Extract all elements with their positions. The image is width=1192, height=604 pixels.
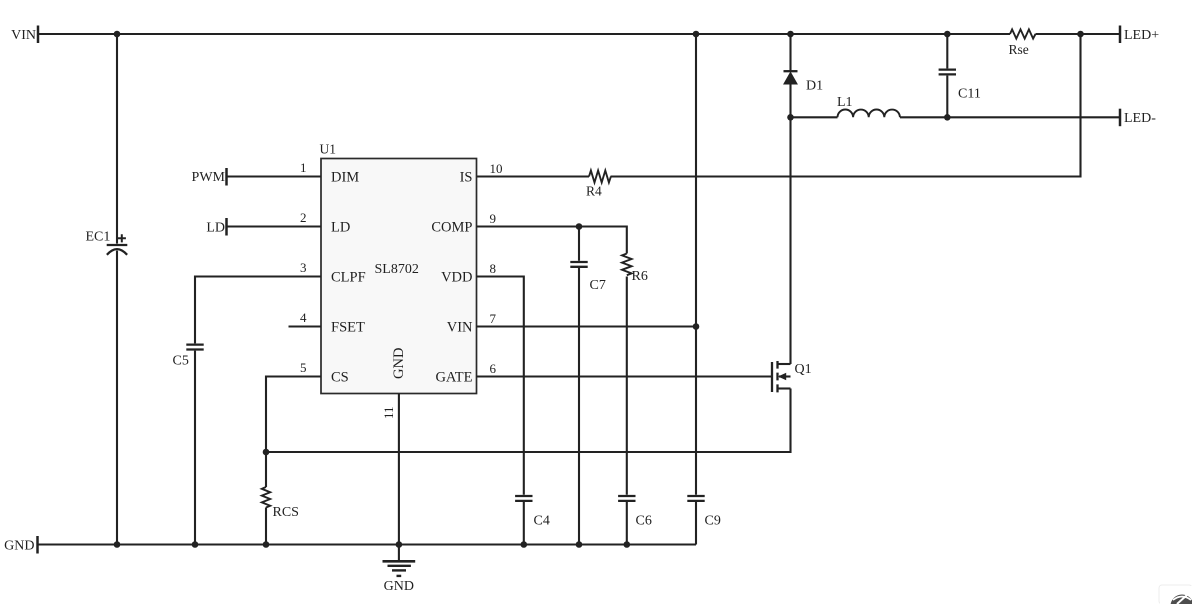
svg-text:LD: LD (206, 221, 225, 236)
node junction D1 L1 (787, 114, 794, 121)
capacitor C4 (515, 496, 550, 529)
capacitor C7 (570, 262, 606, 293)
resistor R4 (586, 171, 611, 199)
wire top rail Rse to LED+ (1036, 33, 1121, 35)
node junction rail EC1 (114, 541, 121, 548)
svg-text:IS: IS (460, 170, 473, 186)
inductor L1 (837, 95, 900, 117)
svg-text:1: 1 (300, 160, 307, 175)
svg-text:FSET: FSET (331, 320, 365, 336)
node junction rail RCS (263, 541, 270, 548)
wire bottom ground rail (38, 543, 697, 545)
diode D1 (784, 71, 824, 93)
terminal LD (206, 218, 226, 236)
svg-text:EC1: EC1 (86, 230, 111, 245)
node junction top rail at EC1 (114, 31, 121, 38)
svg-text:C11: C11 (958, 87, 981, 102)
svg-text:Rse: Rse (1009, 42, 1029, 57)
svg-text:C6: C6 (636, 514, 652, 529)
wire C5 lower lead (194, 351, 196, 545)
svg-text:C7: C7 (590, 278, 606, 293)
capacitor C5 (173, 345, 204, 369)
svg-text:LED-: LED- (1124, 111, 1156, 126)
svg-text:R6: R6 (632, 269, 648, 284)
svg-text:U1: U1 (320, 142, 337, 157)
resistor RCS (262, 487, 299, 520)
capacitor C6 (618, 496, 652, 529)
node junction COMP C7 (576, 223, 583, 230)
wire LD to pin2 (227, 225, 322, 227)
svg-text:COMP: COMP (431, 220, 472, 236)
node junction rail C7 (576, 541, 583, 548)
svg-text:2: 2 (300, 210, 307, 225)
wire R6 to C6 (626, 277, 628, 495)
wire D1 cathode down to Q1 drain (789, 84, 791, 364)
svg-text:GND: GND (391, 348, 407, 379)
wire L1 left lead (791, 116, 838, 118)
terminal VIN (11, 26, 38, 44)
wire COMP to R6 (477, 227, 627, 254)
terminal GND left (4, 536, 37, 554)
svg-text:VIN: VIN (11, 28, 36, 43)
wire EC1 lower lead (116, 251, 118, 545)
node junction top rail at IS sense (1077, 31, 1084, 38)
wire CS to RCS branch (266, 377, 321, 488)
node junction top rail at D1 (787, 31, 794, 38)
wire IS vertical sense line (611, 34, 1081, 177)
svg-text:11: 11 (381, 406, 396, 419)
wire CLPF to C5 (195, 277, 321, 344)
node junction top rail at C11 (944, 31, 951, 38)
node junction CS source link (263, 449, 270, 456)
svg-text:10: 10 (490, 161, 503, 176)
resistor Rse (1009, 29, 1036, 57)
svg-text:RCS: RCS (273, 505, 299, 520)
svg-text:GATE: GATE (435, 370, 472, 386)
IC U1 body (320, 142, 477, 394)
wire VIN pin7 to branch (477, 325, 697, 327)
capacitor C9 (687, 496, 721, 529)
wire CS to Q1 source (266, 389, 791, 453)
wire C7 lower lead (578, 268, 580, 545)
ground symbol (383, 545, 416, 595)
svg-text:6: 6 (490, 361, 497, 376)
svg-text:DIM: DIM (331, 170, 359, 186)
node junction C11 bottom (944, 114, 951, 121)
wire C7 upper lead (578, 227, 580, 261)
wire IS pin to R4 (477, 175, 590, 177)
wire EC1 upper lead (116, 34, 118, 244)
node junction rail GND pin (396, 541, 403, 548)
svg-text:9: 9 (490, 211, 497, 226)
svg-text:GND: GND (384, 579, 414, 594)
svg-text:C4: C4 (534, 514, 550, 529)
svg-text:CS: CS (331, 370, 349, 386)
svg-text:C5: C5 (173, 354, 189, 369)
svg-text:4: 4 (300, 310, 307, 325)
node junction top rail at VIN branch (693, 31, 700, 38)
svg-text:C9: C9 (705, 514, 721, 529)
wire GATE to Q1 (477, 375, 773, 377)
transistor Q1 (772, 361, 812, 392)
corner widget panel (1159, 585, 1192, 604)
terminal PWM (192, 168, 227, 186)
wire FSET stub (289, 325, 322, 327)
svg-text:VDD: VDD (441, 270, 472, 286)
svg-text:LD: LD (331, 220, 350, 236)
svg-text:8: 8 (490, 261, 497, 276)
svg-text:CLPF: CLPF (331, 270, 366, 286)
node junction rail C6 (624, 541, 631, 548)
svg-text:3: 3 (300, 260, 307, 275)
wire L1 to LED- terminal (900, 116, 1120, 118)
wire PWM to pin1 (227, 175, 322, 177)
svg-text:7: 7 (490, 311, 497, 326)
node junction rail C4 (521, 541, 528, 548)
wire C9 lower lead (695, 502, 697, 545)
wire C4 lower lead (523, 502, 525, 545)
svg-text:LED+: LED+ (1124, 28, 1159, 43)
wire RCS lower lead (265, 508, 267, 545)
wire top rail VIN to Rse (38, 33, 1010, 35)
capacitor C11 (939, 34, 981, 117)
wire D1 upper lead (789, 34, 791, 71)
terminal LED- (1120, 109, 1156, 127)
svg-text:R4: R4 (586, 183, 602, 198)
terminal LED+ (1120, 26, 1159, 44)
node junction rail C5 (192, 541, 199, 548)
wire VDD to C4 (477, 277, 524, 495)
svg-text:SL8702: SL8702 (375, 262, 419, 277)
svg-text:Q1: Q1 (795, 362, 812, 377)
wire C6 lower lead (626, 502, 628, 545)
svg-text:L1: L1 (837, 95, 853, 110)
node junction VIN pin7 (693, 323, 700, 330)
svg-text:D1: D1 (806, 79, 823, 94)
svg-text:VIN: VIN (447, 320, 473, 336)
svg-text:GND: GND (4, 538, 34, 553)
wire GND pin 11 (398, 394, 400, 545)
svg-text:PWM: PWM (192, 170, 226, 185)
svg-text:5: 5 (300, 360, 307, 375)
capacitor EC1 (86, 230, 128, 255)
resistor R6 (622, 254, 648, 285)
wire VIN branch vertical to pin7 and C9 (695, 34, 697, 495)
